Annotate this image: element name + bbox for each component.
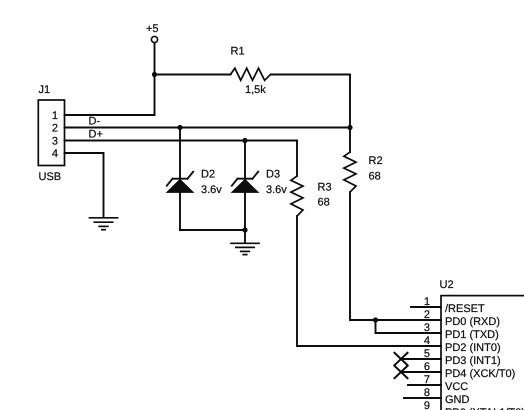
wire branch to U2 pin3 (376, 320, 442, 333)
resistor R1 (231, 68, 271, 80)
wire R3 down to U2 pin4 (297, 216, 441, 346)
svg-text:1: 1 (424, 296, 430, 308)
svg-text:PD2 (INT0): PD2 (INT0) (445, 342, 501, 354)
svg-text:D2: D2 (201, 169, 215, 181)
wire D2 cathode (179, 128, 181, 179)
wire J1 pin4 to ground (65, 153, 104, 218)
wire D+ net (65, 140, 298, 142)
svg-text:6: 6 (424, 361, 430, 373)
svg-text:4: 4 (424, 335, 430, 347)
svg-text:PD4 (XCK/T0): PD4 (XCK/T0) (445, 368, 515, 380)
wire +5 vertical down to pin1 (154, 43, 156, 115)
junction D- to R2 bus (347, 125, 352, 130)
svg-text:D-: D- (89, 116, 101, 128)
svg-text:/RESET: /RESET (445, 303, 485, 315)
svg-text:2: 2 (52, 123, 58, 135)
svg-text:2: 2 (424, 309, 430, 321)
svg-text:7: 7 (424, 374, 430, 386)
svg-text:R2: R2 (369, 155, 383, 167)
IC U2 (441, 296, 524, 410)
svg-text:3.6v: 3.6v (266, 184, 287, 196)
wire J1 pin1 horizontal (65, 114, 155, 116)
junction D+ to D3 (242, 138, 247, 143)
pin 1 stub (U2 /RESET) (411, 306, 441, 308)
junction D2/D3 ground node (242, 227, 247, 232)
svg-text:PD0 (RXD): PD0 (RXD) (445, 316, 500, 328)
pin 6 stub (U2 PD4) (401, 371, 441, 373)
power +5 terminal circle (151, 36, 157, 42)
svg-text:VCC: VCC (445, 381, 468, 393)
svg-text:D3: D3 (266, 169, 280, 181)
svg-text:68: 68 (318, 197, 330, 209)
svg-text:5: 5 (424, 348, 430, 360)
wire R2 down to U2 pin2 (350, 192, 441, 320)
junction PD0/PD1 tie (373, 317, 378, 322)
ground (below J1) (90, 218, 118, 230)
wire R1 right to vertical bus (271, 74, 350, 76)
svg-text:8: 8 (424, 387, 430, 399)
no-connect X pin 6 (395, 366, 408, 378)
svg-text:68: 68 (369, 171, 381, 183)
svg-text:4: 4 (52, 148, 58, 160)
pin 8 stub (U2 GND) (404, 397, 441, 399)
svg-text:9: 9 (424, 400, 430, 410)
svg-text:1: 1 (52, 110, 58, 122)
wire vertical bus down to R2 (349, 75, 351, 153)
wire D2 anode down (179, 192, 181, 230)
svg-text:R1: R1 (231, 46, 245, 58)
diode D3 (zener 3.6v) (232, 172, 258, 193)
svg-text:3: 3 (424, 322, 430, 334)
svg-text:+5: +5 (146, 23, 159, 35)
svg-text:USB: USB (39, 171, 62, 183)
resistor R2 (344, 152, 356, 192)
svg-text:3.6v: 3.6v (201, 184, 222, 196)
wire D3 cathode (244, 141, 246, 179)
resistor R3 (291, 176, 303, 216)
wire D- net (65, 127, 351, 129)
ground (below diodes) (231, 243, 259, 254)
junction +5 node (152, 72, 157, 77)
wire D+ down to R3 (296, 141, 298, 177)
svg-text:U2: U2 (440, 279, 454, 291)
no-connect X pin 5 (395, 353, 408, 365)
svg-text:1,5k: 1,5k (245, 84, 266, 96)
svg-text:PD3 (INT1): PD3 (INT1) (445, 355, 501, 367)
svg-text:R3: R3 (318, 182, 332, 194)
svg-text:J1: J1 (39, 84, 51, 96)
pin 5 stub (U2 PD3) (401, 358, 441, 360)
connector J1 (38, 100, 64, 166)
svg-text:GND: GND (445, 394, 470, 406)
pin 7 stub (U2 VCC) (408, 384, 441, 386)
wire D2 to D3 bottom (180, 229, 245, 231)
wire +5 node to R1 (155, 74, 231, 76)
wire D3 anode down (244, 192, 246, 243)
junction D- to D2 (177, 125, 182, 130)
svg-text:3: 3 (52, 136, 58, 148)
svg-text:D+: D+ (89, 129, 103, 141)
svg-text:PD1 (TXD): PD1 (TXD) (445, 329, 499, 341)
diode D2 (zener 3.6v) (167, 172, 193, 193)
